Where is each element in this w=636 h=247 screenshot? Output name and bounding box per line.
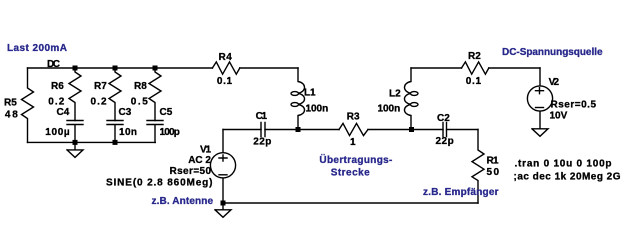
junction node L1 bottom [296, 127, 301, 132]
svg-text:R2: R2 [468, 51, 481, 62]
wire bottom-left rail [28, 141, 156, 143]
svg-text:100n: 100n [306, 104, 329, 115]
wire top rail R2 to V2 [489, 67, 540, 69]
svg-text:DC: DC [47, 59, 60, 70]
svg-text:R5: R5 [4, 98, 17, 109]
resistor R3 [339, 112, 368, 148]
wire middle rail C2 to R1 [447, 129, 479, 131]
voltage source V1 [106, 130, 236, 204]
svg-text:10V: 10V [550, 111, 568, 122]
wire top rail R4 to L1 [240, 67, 298, 69]
inductor L1 [291, 68, 328, 130]
V1 minus mark [219, 174, 227, 176]
svg-text:C5: C5 [160, 107, 173, 118]
resistor R8 [131, 68, 161, 121]
capacitor C4 [45, 107, 83, 142]
wire middle rail V1 to C1 [223, 129, 261, 131]
comment label Uebertragungs-Strecke [319, 153, 392, 178]
svg-text:R8: R8 [134, 81, 147, 92]
junction node C4 bottom / ground [73, 140, 78, 145]
svg-text:Rser=50: Rser=50 [170, 166, 212, 177]
svg-text:R3: R3 [347, 112, 360, 123]
wire middle rail C1 to R3 [265, 129, 339, 131]
resistor R7 [91, 68, 122, 121]
junction node L2 bottom [409, 127, 414, 132]
capacitor C5 [147, 107, 180, 142]
svg-text:50: 50 [487, 167, 500, 178]
svg-text:C2: C2 [437, 113, 450, 124]
V2 minus mark [536, 107, 544, 109]
svg-text:z.B. Empfänger: z.B. Empfänger [423, 187, 499, 198]
svg-text:R6: R6 [51, 81, 64, 92]
resistor R2 [462, 51, 489, 87]
svg-text:.tran 0 10u 0 100p: .tran 0 10u 0 100p [515, 159, 612, 170]
svg-text:Last 200mA: Last 200mA [7, 43, 67, 54]
svg-text:SINE(0 2.8 860Meg): SINE(0 2.8 860Meg) [106, 178, 213, 189]
V2 plus mark [536, 88, 544, 94]
junction node C3 bottom [113, 140, 118, 145]
resistor R4 [212, 52, 239, 87]
svg-text:100p: 100p [160, 127, 180, 138]
svg-text:0.1: 0.1 [217, 76, 233, 87]
svg-text:C4: C4 [57, 107, 70, 118]
svg-text:Übertragungs-: Übertragungs- [319, 153, 392, 166]
junction node R8 top [153, 66, 158, 71]
svg-text:Rser=0.5: Rser=0.5 [551, 100, 597, 111]
ground left section [67, 142, 83, 157]
svg-text:Strecke: Strecke [331, 167, 370, 178]
resistor R5 [4, 68, 34, 142]
ground at V1 [215, 203, 231, 217]
svg-text:48: 48 [5, 110, 18, 121]
svg-text:10n: 10n [119, 127, 137, 138]
svg-text:R1: R1 [487, 155, 499, 166]
svg-text:22p: 22p [436, 136, 454, 147]
svg-text:V1: V1 [200, 144, 211, 155]
svg-text:0.5: 0.5 [131, 96, 148, 107]
wire top rail DC net (left end to R4) [28, 67, 213, 69]
svg-text:0.2: 0.2 [91, 96, 108, 107]
svg-text:100n: 100n [378, 104, 401, 115]
wire bottom rail [223, 202, 478, 204]
svg-text:22p: 22p [253, 137, 271, 148]
junction node R7 top [113, 66, 118, 71]
junction node V1 bottom / ground [221, 201, 226, 206]
svg-text:V2: V2 [549, 77, 560, 88]
voltage source V2 [527, 68, 596, 129]
svg-text:AC 2: AC 2 [188, 155, 211, 166]
capacitor C2 [436, 113, 454, 147]
svg-text:C1: C1 [256, 111, 268, 122]
capacitor C1 [253, 111, 271, 148]
wire middle rail R3 to C2 [368, 129, 443, 131]
capacitor C3 [107, 107, 137, 142]
ground at V2 [532, 129, 548, 137]
svg-text:R4: R4 [219, 52, 233, 63]
svg-text:0.2: 0.2 [48, 96, 65, 107]
svg-text:;ac dec 1k 20Meg 2G: ;ac dec 1k 20Meg 2G [514, 172, 621, 183]
svg-text:R7: R7 [94, 81, 107, 92]
svg-text:0.1: 0.1 [466, 76, 482, 87]
svg-text:DC-Spannungsquelle: DC-Spannungsquelle [502, 47, 603, 58]
resistor R1 [472, 130, 500, 204]
junction node R6 top [73, 66, 78, 71]
svg-text:L1: L1 [304, 88, 316, 99]
resistor R6 [48, 68, 81, 121]
wire top rail L2 to R2 [411, 67, 462, 69]
svg-text:100µ: 100µ [45, 127, 70, 138]
inductor L2 [378, 68, 419, 130]
svg-text:L2: L2 [389, 89, 401, 100]
svg-text:C3: C3 [119, 107, 132, 118]
svg-text:1: 1 [350, 137, 356, 148]
V1 plus mark [219, 155, 227, 161]
svg-text:z.B. Antenne: z.B. Antenne [152, 196, 214, 207]
